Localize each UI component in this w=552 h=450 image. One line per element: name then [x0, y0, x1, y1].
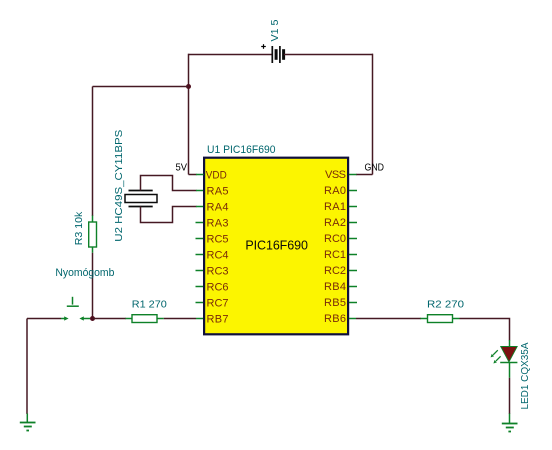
wire: RB6 pin to R2 — [356, 318, 421, 320]
pin RB7 — [196, 314, 229, 326]
junction node on 5V rail — [186, 84, 191, 89]
wire: left vertical from top rail down to VDD bend — [188, 54, 190, 175]
pin RC6 — [196, 282, 229, 294]
pin RA3 — [196, 218, 229, 230]
svg-text:RC5: RC5 — [207, 234, 229, 246]
pin RB6 — [324, 313, 356, 325]
svg-text:5V: 5V — [176, 162, 188, 174]
pin RC5 — [196, 234, 229, 246]
switch SW1 push button — [61, 297, 90, 321]
svg-text:RC2: RC2 — [324, 265, 346, 277]
pin RC0 — [324, 233, 357, 245]
svg-text:RB6: RB6 — [324, 313, 346, 325]
svg-text:RC4: RC4 — [207, 250, 229, 262]
wire: battery left terminal to top-left corner — [189, 54, 273, 56]
svg-text:VSS: VSS — [325, 169, 346, 181]
pin VSS — [325, 169, 357, 181]
svg-text:Nyomógomb: Nyomógomb — [55, 267, 114, 279]
svg-text:RC6: RC6 — [207, 282, 229, 294]
ground symbol bottom-left — [20, 414, 36, 431]
wire: 5V branch horizontal to left — [93, 86, 190, 88]
pin RA5 — [196, 186, 229, 198]
pin RA0 — [324, 185, 357, 197]
svg-text:U2 HC49S_CY11BPS: U2 HC49S_CY11BPS — [113, 130, 125, 242]
svg-text:PIC16F690: PIC16F690 — [245, 239, 308, 253]
LED LED1 — [491, 340, 518, 378]
pin RB5 — [324, 297, 357, 309]
wire: R2 to LED corner and down — [460, 319, 510, 341]
svg-text:V1 5: V1 5 — [269, 19, 281, 41]
pin RC2 — [324, 265, 357, 277]
svg-text:RA5: RA5 — [207, 186, 229, 198]
pin RC4 — [196, 250, 229, 262]
crystal U2 body — [125, 191, 157, 207]
pin RA2 — [324, 217, 357, 229]
pin RC1 — [324, 249, 357, 261]
svg-text:RA1: RA1 — [324, 201, 346, 213]
svg-text:LED1 CQX35A: LED1 CQX35A — [519, 343, 531, 410]
wire: crystal bottom loop to RA4 — [141, 207, 197, 223]
IC U1 PIC16F690 body — [204, 158, 348, 335]
wire: R1 to RB7 pin — [164, 318, 196, 320]
svg-text:RC1: RC1 — [324, 249, 346, 261]
svg-text:GND: GND — [365, 162, 385, 174]
pin VDD — [196, 170, 227, 182]
pin RA1 — [324, 201, 357, 213]
wire: crystal top loop to RA5 — [141, 176, 197, 191]
svg-text:RA0: RA0 — [324, 185, 346, 197]
wire: into VSS pin — [356, 174, 373, 176]
wire: right vertical down to VSS row — [372, 54, 374, 175]
svg-text:RC7: RC7 — [207, 298, 229, 310]
pin RC3 — [196, 266, 229, 278]
svg-text:RC3: RC3 — [207, 266, 229, 278]
junction node switch / R3 / RB7 — [90, 316, 95, 321]
svg-text:R3 10k: R3 10k — [74, 211, 85, 246]
resistor R2 (270) — [421, 315, 460, 323]
wire: switch to bottom-left corner — [27, 318, 61, 320]
svg-text:VDD: VDD — [206, 170, 227, 182]
resistor R1 (270) — [126, 315, 164, 323]
svg-text:RA2: RA2 — [324, 217, 346, 229]
wire: junction to R1 — [93, 318, 127, 320]
wire: battery right terminal to top-right corner — [284, 54, 373, 56]
wire: left vertical down to ground — [26, 319, 28, 415]
pin RB4 — [324, 281, 357, 293]
wire: VDD bend into pin — [189, 174, 197, 176]
pin RA4 — [196, 202, 229, 214]
svg-text:RB4: RB4 — [324, 281, 346, 293]
ground symbol bottom-right — [502, 414, 518, 432]
svg-text:RB5: RB5 — [324, 297, 346, 309]
svg-text:R1 270: R1 270 — [132, 300, 167, 311]
svg-text:U1 PIC16F690: U1 PIC16F690 — [207, 144, 276, 156]
svg-text:RA4: RA4 — [207, 202, 229, 214]
svg-text:RB7: RB7 — [207, 314, 229, 326]
svg-text:R2 270: R2 270 — [427, 300, 464, 311]
wire: R3 bottom to switch junction — [92, 253, 94, 319]
wire: LED to ground — [509, 378, 511, 414]
battery V1 — [272, 46, 283, 63]
battery plus sign — [261, 44, 266, 49]
svg-text:RC0: RC0 — [324, 233, 346, 245]
resistor R3 (10k) — [89, 216, 97, 253]
pin RC7 — [196, 298, 229, 310]
wire: branch down to resistor R3 — [92, 87, 94, 217]
svg-text:RA3: RA3 — [207, 218, 229, 230]
